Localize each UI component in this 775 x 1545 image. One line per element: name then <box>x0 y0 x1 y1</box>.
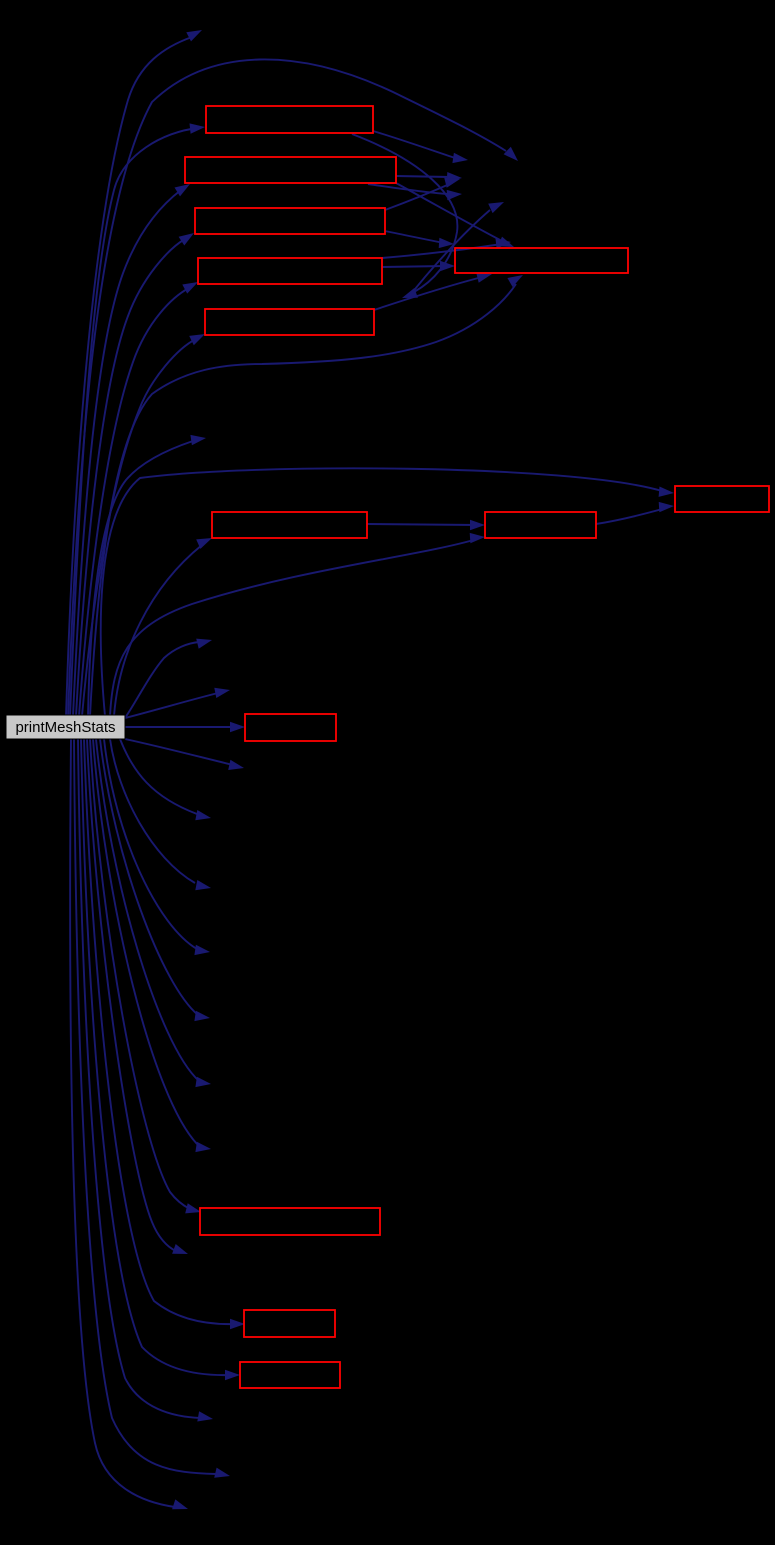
edge printMeshStats->box9 (long) <box>110 533 485 716</box>
edge printMeshStats->box11 <box>90 739 201 1213</box>
edge printMeshStats->box1 <box>70 123 205 716</box>
edge box1->node-A <box>373 131 468 163</box>
edge printMeshStats->node-438 <box>88 435 206 716</box>
edge box2->node-C <box>368 184 462 200</box>
edge box3->node-A2 <box>385 178 460 210</box>
edge box5->box6-bottom <box>374 273 492 310</box>
edge box1->node-B (S descender) <box>352 134 457 298</box>
svg-text:printMeshStats: printMeshStats <box>15 719 115 736</box>
edge printMeshStats->node-1474 <box>74 739 230 1478</box>
edge printMeshStats->node-1509 <box>70 739 188 1509</box>
edge node-B->node-D (steep riser) <box>408 202 504 298</box>
edge printMeshStats->box7 (long flat) <box>101 468 674 716</box>
edge box4->box6-left <box>382 261 455 271</box>
node box6 <box>455 248 628 273</box>
node box3 <box>195 208 385 234</box>
node box8 <box>212 512 367 538</box>
edge printMeshStats->node-691 <box>125 688 230 718</box>
edge printMeshStats->box8 <box>114 538 212 716</box>
edge printMeshStats->node-1084 <box>96 739 211 1087</box>
edge printMeshStats->node-640 <box>125 639 212 718</box>
edge box2->box6-top <box>396 183 514 247</box>
edge printMeshStats->node-818 <box>120 739 211 820</box>
edge printMeshStats->box4 <box>79 282 198 716</box>
edge box9->box7 <box>596 502 674 524</box>
edge printMeshStats->box13 <box>81 739 240 1380</box>
edge printMeshStats->box10 <box>125 722 245 732</box>
edge printMeshStats->node-768 <box>125 739 244 770</box>
node box7 <box>675 486 769 512</box>
edge printMeshStats->box3 <box>76 233 194 716</box>
node box10 <box>245 714 336 741</box>
edge printMeshStats->box2 <box>73 184 190 716</box>
edge printMeshStats->node-1254 <box>87 739 188 1254</box>
edge printMeshStats->node-arc (big arc) <box>68 59 518 716</box>
node box13 <box>240 1362 340 1388</box>
edge box3->box6-left <box>385 231 454 248</box>
edge printMeshStats->node-952 <box>104 739 210 955</box>
edge printMeshStats->node-1149 <box>93 739 211 1152</box>
node box12 <box>244 1310 335 1337</box>
edge printMeshStats->node-top <box>66 30 202 716</box>
edge printMeshStats->node-888 <box>110 739 211 890</box>
edge box8->box9 <box>367 520 485 530</box>
edge printMeshStats->node-1419 <box>78 739 213 1422</box>
node box1 <box>206 106 373 133</box>
node printMeshStats <box>6 715 125 739</box>
edge box2->node-A2 <box>396 172 462 182</box>
edge printMeshStats->box12 <box>84 739 245 1329</box>
edge printMeshStats->box5 <box>82 334 205 716</box>
node box4 <box>198 258 382 284</box>
node box11 <box>200 1208 380 1235</box>
edge printMeshStats->box6 (long S) <box>90 275 523 716</box>
node box2 <box>185 157 396 183</box>
edge printMeshStats->node-1018 <box>100 739 210 1021</box>
node box9 <box>485 512 596 538</box>
edge box4->box6-top <box>382 238 511 258</box>
node box5 <box>205 309 374 335</box>
